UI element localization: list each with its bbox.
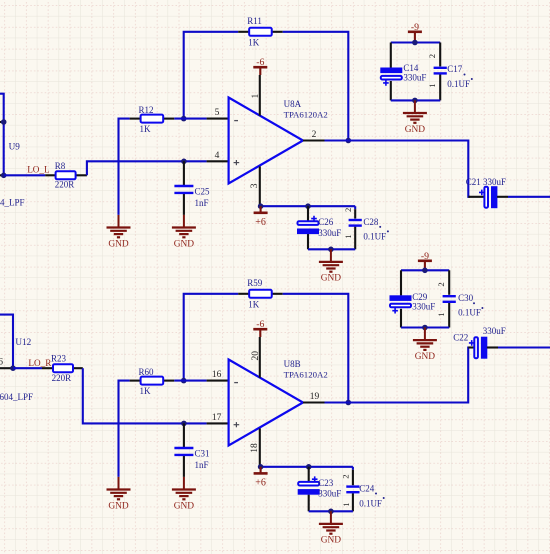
pin number 16 xyxy=(212,370,222,380)
label R23 xyxy=(51,353,67,363)
resistor R59 pins xyxy=(238,293,283,295)
junction pin18 node xyxy=(258,464,264,470)
svg-text:TPA6120A2: TPA6120A2 xyxy=(284,110,328,120)
op-amp U8B pin 20 (V+) xyxy=(259,337,261,378)
junction feedback to pin16 xyxy=(181,378,187,384)
ground under C25 xyxy=(172,215,196,249)
label C29 xyxy=(412,292,428,302)
label R12 xyxy=(139,105,154,115)
svg-text:2: 2 xyxy=(436,282,446,286)
op-amp U8B pin 18 (V-) xyxy=(259,428,261,466)
svg-text:6: 6 xyxy=(0,358,3,368)
pin number 1 (C17) xyxy=(427,84,437,88)
junction on U9 wire xyxy=(1,119,7,125)
svg-text:1: 1 xyxy=(341,503,351,507)
resistor R60 xyxy=(141,377,164,385)
capacitor C22 xyxy=(469,337,487,358)
junction -9 stem xyxy=(412,40,418,46)
U9 pin stub at y=122 xyxy=(0,121,4,123)
capacitor C21 left pin xyxy=(468,196,484,198)
svg-text:1: 1 xyxy=(343,235,353,239)
svg-text:18: 18 xyxy=(250,443,260,453)
svg-text:R8: R8 xyxy=(55,161,66,171)
part TPA6120A2 (U8B) xyxy=(284,370,328,380)
value 1K (R11) xyxy=(248,38,260,48)
pin number 19 xyxy=(310,392,320,402)
capacitor C30 pins xyxy=(448,270,450,327)
junction gnd tap C14/C17 xyxy=(412,98,418,104)
value 220R xyxy=(55,180,75,190)
resistor R11 xyxy=(249,28,272,36)
wire output U8B to C22 xyxy=(325,348,471,403)
label U8A xyxy=(284,99,302,109)
wire R11 to output node xyxy=(283,32,349,141)
part TPA6120A2 xyxy=(284,110,328,120)
svg-text:C21 330uF: C21 330uF xyxy=(466,177,506,187)
resistor R11 pins xyxy=(238,31,283,33)
svg-text:+6: +6 xyxy=(255,477,266,488)
label C23 xyxy=(318,478,334,488)
junction ground tap C26/C28 xyxy=(328,247,334,253)
capacitor C23 pins xyxy=(308,467,310,512)
svg-text:LO_L: LO_L xyxy=(27,165,50,175)
pin number 3 xyxy=(250,183,260,188)
capacitor C21 xyxy=(479,187,497,208)
wire C29-C30 bottom xyxy=(401,326,449,328)
ground under R60 xyxy=(107,477,131,511)
svg-text:330uF: 330uF xyxy=(318,228,341,238)
svg-text:1: 1 xyxy=(436,313,446,317)
svg-text:C30: C30 xyxy=(458,293,474,303)
op-amp U8B pin 19 (out) xyxy=(303,401,325,403)
svg-text:GND: GND xyxy=(405,125,426,135)
label R60 xyxy=(139,367,155,377)
junction gnd tap C29/C30 xyxy=(422,325,428,331)
svg-text:GND: GND xyxy=(321,274,342,284)
non-inverting mark U8A xyxy=(234,160,240,165)
svg-text:C31: C31 xyxy=(195,449,210,459)
svg-text:2: 2 xyxy=(343,208,353,212)
wire R60 to op-amp pin16 xyxy=(174,380,206,382)
pin number 17 xyxy=(212,413,222,423)
svg-text:GND: GND xyxy=(174,239,195,249)
svg-text:220R: 220R xyxy=(52,373,72,383)
junction node LO_R at U12 pin xyxy=(10,365,16,371)
svg-text:-9: -9 xyxy=(411,22,419,33)
capacitor C30 xyxy=(443,296,456,302)
pin number 2 (C17) xyxy=(427,54,437,58)
junction pin3 node xyxy=(258,203,264,209)
label R8 xyxy=(55,161,66,171)
svg-text:-6: -6 xyxy=(256,319,264,330)
wire R59 to output node xyxy=(283,294,349,403)
svg-text:GND: GND xyxy=(415,352,436,362)
label C14 xyxy=(403,63,419,73)
ground under R12 xyxy=(107,215,131,249)
U9 pin stub at LO_L xyxy=(0,174,4,176)
pin number 5 xyxy=(215,108,220,118)
svg-text:1K: 1K xyxy=(248,300,260,310)
svg-text:TPA6120A2: TPA6120A2 xyxy=(284,370,328,380)
junction C23 top xyxy=(306,464,312,470)
pin number 18 xyxy=(250,443,260,453)
value 0.1UF (C17) xyxy=(447,78,473,89)
value 330uF (C29) xyxy=(412,301,435,311)
pin number 2 (C24) xyxy=(341,475,351,479)
svg-text:2: 2 xyxy=(312,130,317,140)
wire R23 to op-amp pin17 (jog down) xyxy=(83,368,207,423)
inverting mark U8A xyxy=(234,120,238,122)
svg-text:3: 3 xyxy=(250,183,260,188)
svg-text:1nF: 1nF xyxy=(195,198,209,208)
pin number 2 (C30) xyxy=(436,282,446,286)
svg-text:1: 1 xyxy=(427,84,437,88)
svg-text:16: 16 xyxy=(212,370,222,380)
svg-text:C23: C23 xyxy=(318,478,334,488)
power port -6 (U8A pin1) xyxy=(253,57,267,75)
svg-text:1K: 1K xyxy=(248,38,260,48)
svg-text:330uF: 330uF xyxy=(412,301,435,311)
value 1nF (C31) xyxy=(195,460,209,470)
capacitor C25 xyxy=(174,186,193,193)
wire LO_L to R8 xyxy=(4,174,46,176)
junction ground tap C23/C24 xyxy=(328,509,334,515)
svg-text:C17: C17 xyxy=(447,64,463,74)
wire C26-C28 bottom xyxy=(308,248,355,250)
pin number 2 (C28) xyxy=(343,208,353,212)
svg-text:U8B: U8B xyxy=(284,359,301,369)
label C21 330uF xyxy=(466,177,506,187)
svg-text:C24: C24 xyxy=(359,483,375,493)
svg-text:GND: GND xyxy=(108,239,129,249)
junction C25 tap on pin4 wire xyxy=(181,159,187,165)
value 220R (R23) xyxy=(52,373,72,383)
capacitor C26 pins xyxy=(307,206,309,249)
wire from U9 into LO_L node xyxy=(0,94,4,176)
svg-text:R12: R12 xyxy=(139,105,154,115)
junction feedback at output xyxy=(346,138,352,144)
junction feedback at output (B) xyxy=(346,400,352,406)
capacitor C23 xyxy=(298,476,319,494)
svg-text:C14: C14 xyxy=(403,63,419,73)
capacitor C22 left pin xyxy=(468,346,474,348)
wire -9 rail top xyxy=(391,41,440,43)
svg-text:220R: 220R xyxy=(55,180,75,190)
wire from U12 into LO_R node xyxy=(0,315,13,369)
capacitor C26 xyxy=(298,216,319,234)
svg-text:C26: C26 xyxy=(318,217,334,227)
capacitor C28 pins xyxy=(354,206,356,249)
wire R60 left to ground drop xyxy=(119,381,130,477)
svg-text:4_LPF: 4_LPF xyxy=(0,198,25,208)
wire C22 to sheet edge xyxy=(498,346,550,348)
component U12 (off-sheet, designator only) xyxy=(15,337,31,347)
U12 pin 6 stub xyxy=(0,367,13,369)
label C28 xyxy=(363,217,381,228)
capacitor C17 pins xyxy=(439,43,441,101)
power port -9 (C14 group) xyxy=(408,22,422,43)
power port +6 (U8A) xyxy=(254,206,268,228)
wire R12 left to ground drop xyxy=(119,119,130,215)
capacitor C17 xyxy=(434,68,447,74)
svg-text:C29: C29 xyxy=(412,292,428,302)
ground under C26/C28 xyxy=(319,249,343,283)
svg-text:0.1UF: 0.1UF xyxy=(363,232,386,242)
resistor R12 pins xyxy=(130,118,175,120)
svg-text:R23: R23 xyxy=(51,353,67,363)
svg-text:-6: -6 xyxy=(256,57,264,68)
junction node LO_L at U9 pin xyxy=(1,173,7,179)
junction feedback to pin5 xyxy=(181,116,187,122)
op-amp U8B xyxy=(229,360,303,446)
net label LO_L xyxy=(27,165,50,175)
resistor R59 xyxy=(249,290,272,298)
capacitor C24 pins xyxy=(352,467,354,512)
svg-text:1K: 1K xyxy=(140,386,152,396)
capacitor C14 pins xyxy=(390,43,392,101)
value 1K (R60) xyxy=(140,386,152,396)
svg-text:R60: R60 xyxy=(139,367,155,377)
wire C14-C17 bottom xyxy=(391,99,440,101)
svg-text:GND: GND xyxy=(108,501,129,511)
svg-text:0.1UF: 0.1UF xyxy=(458,307,481,317)
ground under C23/C24 xyxy=(319,511,343,545)
op-amp U8A pin 4 xyxy=(207,160,229,162)
svg-text:17: 17 xyxy=(212,413,222,423)
ground under C14/C17 xyxy=(403,100,427,134)
pin number 1 (C28) xyxy=(343,235,353,239)
op-amp U8A pin 5 xyxy=(207,118,229,120)
op-amp U8B pin 16 xyxy=(207,380,229,382)
value 330uF (C22) xyxy=(483,326,506,336)
pin number 2 xyxy=(312,130,317,140)
capacitor C14 xyxy=(381,68,402,86)
ground under C31 xyxy=(172,477,196,511)
value 1K (R12) xyxy=(140,124,152,134)
pin number 1 (C30) xyxy=(436,313,446,317)
resistor R8 pins xyxy=(45,174,87,176)
pin number 1 xyxy=(251,94,261,99)
svg-text:2: 2 xyxy=(341,475,351,479)
value 0.1UF (C30) xyxy=(458,307,483,317)
svg-text:20: 20 xyxy=(251,351,261,361)
capacitor C31 xyxy=(174,448,193,455)
label U8B xyxy=(284,359,301,369)
pin number 4 xyxy=(215,151,220,161)
op-amp U8A xyxy=(229,98,303,184)
value 0.1UF (C28) xyxy=(363,230,389,241)
pin number 6 (U12) xyxy=(0,358,3,368)
wire LO_R to R23 xyxy=(13,367,42,369)
svg-text:19: 19 xyxy=(310,392,320,402)
pin number 20 xyxy=(251,351,261,361)
svg-text:5: 5 xyxy=(215,108,220,118)
non-inverting mark U8B xyxy=(234,422,240,427)
ground under C29/C30 xyxy=(413,328,437,362)
value 330uF (C14) xyxy=(403,73,426,83)
svg-text:330uF: 330uF xyxy=(403,73,426,83)
resistor R23 pins xyxy=(42,367,83,369)
component U9 (off-sheet, designator only) xyxy=(9,142,21,152)
svg-text:GND: GND xyxy=(321,536,342,546)
value 330uF (C26) xyxy=(318,228,341,238)
wire C21 to sheet edge xyxy=(508,196,550,198)
label C30 xyxy=(458,293,475,304)
svg-text:0.1UF: 0.1UF xyxy=(359,498,382,508)
svg-text:+6: +6 xyxy=(255,217,266,228)
svg-text:R11: R11 xyxy=(247,16,262,26)
resistor R23 xyxy=(53,364,73,372)
svg-text:2: 2 xyxy=(427,54,437,58)
resistor R60 pins xyxy=(130,380,175,382)
resistor R8 xyxy=(56,171,76,179)
svg-text:U12: U12 xyxy=(15,337,31,347)
svg-text:R59: R59 xyxy=(247,278,263,288)
value 1nF xyxy=(195,198,209,208)
capacitor C21 right pin xyxy=(497,196,508,198)
capacitor C29 xyxy=(390,296,411,314)
svg-text:1: 1 xyxy=(251,94,261,99)
svg-text:4: 4 xyxy=(215,151,220,161)
svg-text:0.1UF: 0.1UF xyxy=(447,79,470,89)
svg-text:LO_R: LO_R xyxy=(28,358,52,368)
net label 604_LPF (clipped) xyxy=(0,392,33,402)
svg-text:330uF: 330uF xyxy=(318,488,341,498)
wire pin5 feedback riser xyxy=(184,32,239,119)
svg-text:GND: GND xyxy=(174,501,195,511)
op-amp U8B pin 17 xyxy=(207,422,229,424)
op-amp U8A pin 1 (V+) xyxy=(259,75,261,116)
net label 4_LPF (clipped) xyxy=(0,198,25,208)
svg-text:C25: C25 xyxy=(195,187,211,197)
wire R8 to op-amp pin4 (jog up) xyxy=(87,161,207,175)
svg-text:1nF: 1nF xyxy=(195,460,209,470)
svg-text:1K: 1K xyxy=(140,124,152,134)
value 1K (R59) xyxy=(248,300,260,310)
wire -9 rail top (B) xyxy=(401,269,449,271)
label R59 xyxy=(247,278,263,288)
wire R12 to op-amp pin5 xyxy=(174,118,206,120)
capacitor C24 xyxy=(346,487,359,493)
junction C26 top xyxy=(305,203,311,209)
label C24 xyxy=(359,483,377,494)
value 0.1UF (C24) xyxy=(359,497,385,508)
op-amp U8A pin 3 (V-) xyxy=(259,166,261,206)
svg-text:C28: C28 xyxy=(363,217,379,227)
net label LO_R xyxy=(28,358,52,368)
power port -9 (C29 group) xyxy=(418,251,432,271)
junction C31 tap on pin17 wire xyxy=(181,421,187,427)
wire pin16 feedback riser xyxy=(184,294,239,381)
wire output U8A to C21 xyxy=(325,141,471,197)
svg-text:C22: C22 xyxy=(453,333,468,343)
svg-text:U9: U9 xyxy=(9,142,21,152)
label C25 xyxy=(195,187,211,197)
capacitor C22 right pin xyxy=(487,346,498,348)
capacitor C29 pins xyxy=(400,270,402,327)
power port +6 (U8B) xyxy=(254,467,268,489)
wire C23-C24 bottom xyxy=(309,510,353,512)
label C22 xyxy=(453,333,468,343)
label C31 xyxy=(195,449,210,459)
capacitor C25 pins xyxy=(183,161,185,215)
op-amp U8A pin 2 (out) xyxy=(303,139,325,141)
label C26 xyxy=(318,217,334,227)
inverting mark U8B xyxy=(234,382,238,384)
capacitor C31 pins xyxy=(183,423,185,477)
pin number 1 (C24) xyxy=(341,503,351,507)
resistor R12 xyxy=(141,115,164,123)
junction -9 stem (B) xyxy=(422,268,428,274)
value 330uF (C23) xyxy=(318,488,341,498)
wire pin3 to bypass caps xyxy=(261,205,356,207)
svg-text:330uF: 330uF xyxy=(483,326,506,336)
label R11 xyxy=(247,16,262,26)
label C17 xyxy=(447,64,465,75)
power port -6 (U8B pin20) xyxy=(253,319,267,337)
svg-text:-9: -9 xyxy=(421,251,429,262)
capacitor C28 xyxy=(349,220,362,226)
svg-text:U8A: U8A xyxy=(284,99,302,109)
svg-text:604_LPF: 604_LPF xyxy=(0,392,33,402)
wire pin18 to bypass caps xyxy=(261,466,353,468)
